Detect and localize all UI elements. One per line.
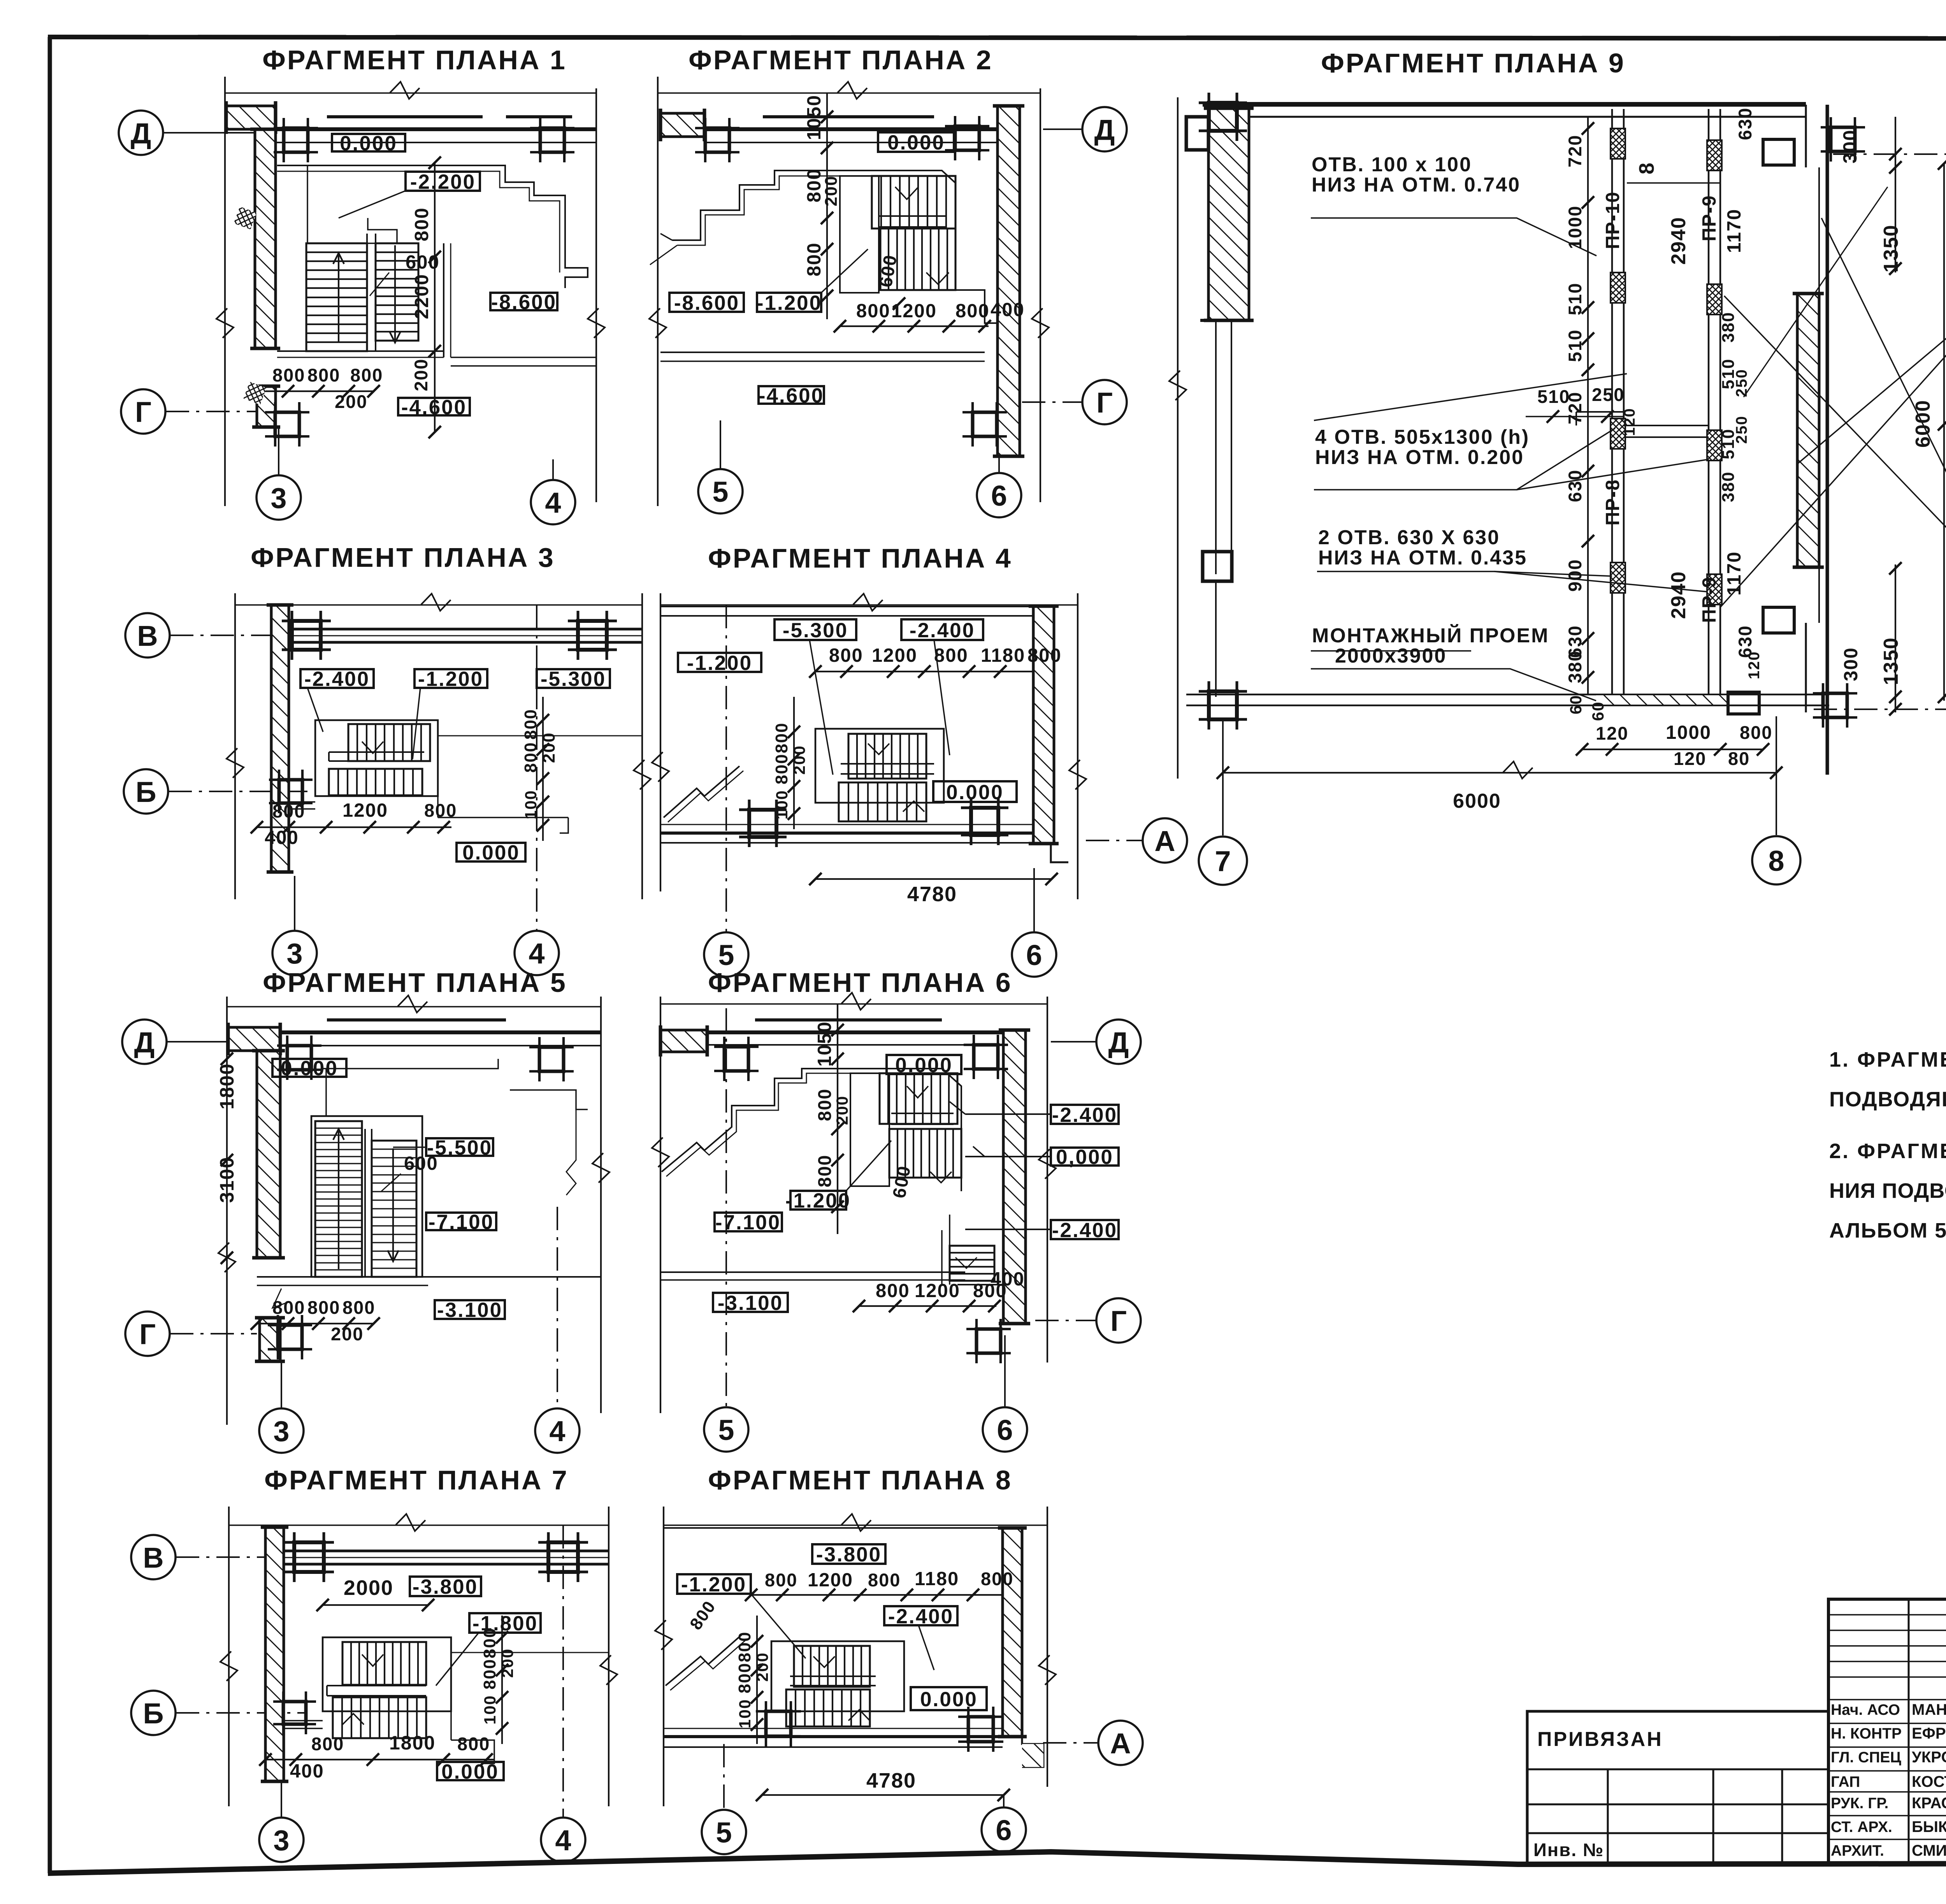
axis circle В [125,613,170,658]
wall section (hatched) [226,106,276,129]
wire [1200,319,1247,322]
wire [235,604,642,606]
axis circle 3 [272,931,317,975]
svg-text:Д: Д [134,1026,155,1058]
axis circle 4 [535,1408,580,1453]
column marker [1209,103,1237,131]
dimension line [837,1004,838,1234]
wall section (hatched) [265,1527,284,1781]
stair flight [329,769,422,795]
wall section (hatched) [1003,1528,1022,1737]
svg-text:0.000: 0.000 [887,131,945,154]
svg-text:-2.200: -2.200 [410,171,476,193]
svg-text:Г: Г [1096,387,1113,419]
svg-text:5: 5 [718,1414,734,1446]
svg-text:200: 200 [822,176,841,206]
wall section (hatched) [1797,294,1819,567]
svg-text:100: 100 [522,790,540,819]
svg-text:В: В [143,1542,163,1574]
wire [450,1637,452,1740]
stair flight [848,734,926,779]
svg-text:ПР-9: ПР-9 [1699,195,1720,241]
dimension line [657,77,659,506]
svg-text:-2.400: -2.400 [888,1605,954,1628]
axis circle 3 [259,1408,304,1453]
wire [1033,844,1068,862]
svg-text:-2.400: -2.400 [304,668,370,691]
wire [1744,187,1888,397]
axis circle Д [119,111,163,155]
wire [957,1284,1003,1285]
svg-text:0,000: 0,000 [1056,1146,1114,1169]
svg-text:-1.200: -1.200 [681,1573,746,1596]
svg-text:АЛЬБОМ 5 КМ-3: АЛЬБОМ 5 КМ-3 [1829,1219,1946,1242]
level mark -2.200 [406,172,480,191]
wire [284,1550,609,1552]
svg-text:-2.400: -2.400 [910,619,975,642]
svg-text:800: 800 [981,1568,1013,1589]
level mark -1.800 [469,1613,541,1633]
svg-text:2940: 2940 [1667,571,1690,619]
axis circle В [131,1535,176,1579]
break mark [655,1620,672,1650]
dimension line [815,878,1052,880]
svg-text:ГЛ. СПЕЦ: ГЛ. СПЕЦ [1831,1749,1901,1766]
axis circle 3 [256,475,301,520]
wire [841,773,934,775]
svg-text:ПР-10: ПР-10 [1602,191,1623,249]
svg-text:1170: 1170 [1724,551,1745,596]
break mark [216,308,234,338]
wire [660,606,1033,607]
wire [366,234,368,351]
svg-text:-3.800: -3.800 [816,1543,882,1566]
svg-text:ФРАГМЕНТ ПЛАНА 1: ФРАГМЕНТ ПЛАНА 1 [262,45,567,75]
wire [276,127,596,131]
stair flight [872,176,955,229]
wire [660,832,1033,835]
stair flight [333,1697,426,1738]
stair flight [950,1246,994,1281]
level mark -1.200 [790,1191,846,1210]
axis circle Г [125,1312,170,1356]
svg-text:-2.400: -2.400 [1052,1104,1117,1127]
svg-text:МОНТАЖНЫЙ ПРОЕМ: МОНТАЖНЫЙ ПРОЕМ [1312,624,1549,647]
wire [1527,1769,1828,1770]
wire [707,1030,1003,1034]
svg-text:120: 120 [1746,651,1763,679]
svg-text:ФРАГМЕНТ ПЛАНА 5: ФРАГМЕНТ ПЛАНА 5 [263,967,567,998]
wall section (hatched) [271,605,289,872]
wire [1022,1737,1043,1767]
wall section (hatched) [257,386,276,427]
svg-text:5: 5 [716,1816,732,1849]
svg-text:800: 800 [1740,722,1772,743]
svg-text:800: 800 [814,1155,835,1187]
svg-text:250: 250 [1592,384,1625,405]
stair flight [348,724,430,761]
level mark 0,000 [1051,1148,1119,1166]
stair flight [794,1646,870,1687]
wire [1186,694,1829,696]
svg-text:В: В [137,620,158,652]
stair flight [315,1121,362,1277]
svg-text:600: 600 [889,1164,915,1199]
svg-text:ГАП: ГАП [1831,1774,1860,1790]
svg-text:4780: 4780 [866,1769,916,1792]
svg-text:800: 800 [856,301,890,322]
dimension line [840,325,989,327]
svg-text:-5.300: -5.300 [783,619,848,642]
axis circle 5 [704,1407,748,1452]
axis circle 5 [698,469,743,513]
svg-text:2. ФРАГМЕНТЫ ПЛАНА 5÷ 8 ПР: 2. ФРАГМЕНТЫ ПЛАНА 5÷ 8 ПРИМЕНЯТЬ ПРИ ГЛ… [1829,1139,1946,1163]
svg-text:630: 630 [1565,469,1585,502]
svg-text:ПР-9: ПР-9 [1699,577,1720,623]
outline [840,176,879,293]
svg-text:8: 8 [1635,162,1658,174]
svg-text:800: 800 [876,1280,910,1301]
column marker [705,128,729,152]
level mark -2.400 [884,1606,957,1625]
dimension line [1223,772,1776,774]
svg-text:-1.200: -1.200 [418,668,483,691]
svg-text:2200: 2200 [411,274,432,319]
axis circle Г [121,389,165,434]
svg-text:800: 800 [868,1570,901,1590]
level mark -2.400 [1051,1220,1119,1239]
wire [658,92,1040,94]
dimension line [826,93,828,319]
wire [277,171,560,273]
svg-text:380: 380 [1565,650,1585,683]
svg-text:ФРАГМЕНТ ПЛАНА 8: ФРАГМЕНТ ПЛАНА 8 [708,1465,1012,1495]
wire [1314,374,1627,420]
svg-text:2000х3900: 2000х3900 [1335,645,1447,667]
stair flight [306,243,367,351]
wall section (hatched) [660,113,704,137]
wire [1311,650,1471,652]
wall section (hatched) [260,1318,280,1361]
wall section (hatched) [998,106,1020,456]
axis circle А [1143,818,1187,863]
level mark 0.000 [933,781,1017,802]
level mark 0.000 [437,1762,504,1780]
svg-text:800: 800 [521,709,540,740]
wire [660,352,985,353]
level mark -2.400 [300,669,374,688]
axis circle 5 [702,1810,746,1854]
svg-text:200: 200 [753,1652,771,1682]
wire [510,1090,588,1109]
wire [891,1113,954,1114]
svg-text:ПОДВОДЯЩЕГО КОЛЛЕКТОРА -7.0: ПОДВОДЯЩЕГО КОЛЛЕКТОРА -7.0 М. СМ. Т.П. … [1829,1088,1946,1111]
svg-text:4: 4 [555,1824,571,1857]
svg-text:800: 800 [272,801,305,821]
svg-text:БЫКОВ: БЫКОВ [1912,1818,1946,1835]
wire [813,1656,835,1667]
svg-text:Г: Г [1110,1305,1127,1337]
svg-text:800: 800 [342,1297,375,1318]
svg-text:-8.600: -8.600 [674,292,739,315]
wire [662,1069,961,1191]
svg-text:НИЗ НА ОТМ. 0.740: НИЗ НА ОТМ. 0.740 [1312,174,1521,196]
svg-text:8: 8 [1768,845,1784,877]
wire [289,801,315,803]
svg-text:Б: Б [143,1697,163,1730]
svg-text:6000: 6000 [1453,790,1501,812]
break mark [227,748,244,778]
svg-text:УКРОПОВА: УКРОПОВА [1912,1749,1946,1766]
wire [437,720,439,818]
svg-text:1180: 1180 [981,645,1025,666]
svg-text:-1.200: -1.200 [757,292,822,315]
svg-text:1170: 1170 [1724,209,1745,253]
svg-text:1050: 1050 [804,95,825,140]
svg-text:800: 800 [735,1663,754,1693]
level mark 0.000 [457,843,525,861]
wire [451,357,596,358]
dimension line [751,1594,1003,1596]
level mark -8.600 [490,293,557,310]
wire [280,1030,601,1034]
axis circle Б [131,1691,176,1735]
svg-text:120: 120 [1621,408,1638,436]
svg-text:-1.200: -1.200 [687,652,752,675]
svg-text:800: 800 [350,365,383,385]
wall section (hatched) [660,1030,707,1052]
level mark -1.200 [678,653,761,672]
wire [229,1524,609,1526]
svg-text:Н. КОНТР: Н. КОНТР [1831,1725,1902,1742]
dimension line [793,697,795,829]
svg-text:5: 5 [718,939,734,971]
svg-text:800: 800 [735,1631,754,1662]
svg-text:200: 200 [335,391,367,412]
axis circle Д [1082,107,1127,151]
axis circle Б [124,769,168,814]
svg-text:800: 800 [411,207,432,241]
axis circle 5 [704,932,748,977]
svg-text:2000: 2000 [344,1576,393,1600]
wall section (hatched) [1208,108,1249,320]
svg-text:1200: 1200 [872,645,917,666]
wire [666,1635,741,1686]
svg-text:-2.400: -2.400 [1052,1219,1117,1242]
dimension line [815,671,1033,672]
svg-text:НИЗ НА ОТМ. 0.200: НИЗ НА ОТМ. 0.200 [1315,446,1524,469]
svg-text:3: 3 [286,937,302,970]
svg-text:3: 3 [270,482,286,514]
svg-text:ОТВ. 100 х 100: ОТВ. 100 х 100 [1312,153,1472,176]
outline [771,1641,904,1711]
svg-text:Д: Д [1094,114,1115,146]
svg-text:300: 300 [1840,129,1861,164]
outline [311,1116,422,1277]
wire [1203,102,1806,107]
svg-text:4: 4 [545,487,561,519]
svg-text:Б: Б [135,776,156,808]
axis circle 6 [982,1807,1026,1852]
svg-text:510: 510 [1537,386,1570,407]
svg-text:100: 100 [773,790,791,819]
svg-text:800: 800 [272,1297,305,1318]
axis circle 4 [515,931,559,975]
level mark 0.000 [878,132,954,152]
stair flight [342,1642,426,1685]
level mark -3.100 [713,1293,788,1312]
svg-text:ФРАГМЕНТ ПЛАНА 9: ФРАГМЕНТ ПЛАНА 9 [1321,48,1625,78]
level mark 0.000 [272,1059,346,1077]
column marker [749,810,776,837]
svg-text:ФРАГМЕНТ ПЛАНА 6: ФРАГМЕНТ ПЛАНА 6 [708,967,1012,998]
svg-text:200: 200 [539,732,559,763]
break mark [652,1137,669,1167]
wire [1215,320,1217,574]
wire [362,742,383,753]
wire [272,1289,288,1308]
svg-text:КОСТИН: КОСТИН [1912,1773,1946,1790]
wall section (hatched) [228,1027,280,1051]
dimension line [1587,117,1589,694]
level mark -4.600 [759,386,824,404]
dimension line [501,1616,503,1744]
axis circle Д [1096,1020,1141,1064]
svg-text:4 ОТВ. 505х1300 (h): 4 ОТВ. 505х1300 (h) [1315,426,1530,448]
wire [1708,109,1710,697]
svg-text:100: 100 [481,1695,499,1725]
dimension line [663,1507,664,1806]
svg-text:400: 400 [991,299,1025,320]
svg-text:МАНКАУСКАС: МАНКАУСКАС [1912,1701,1946,1718]
svg-text:-3.800: -3.800 [413,1575,478,1598]
wire [1805,105,1807,167]
dimension line [1895,117,1896,273]
svg-text:800: 800 [311,1733,344,1754]
dimension line [265,1759,494,1760]
axis circle А [1098,1721,1143,1765]
wire [289,628,642,631]
svg-text:РУК. ГР.: РУК. ГР. [1831,1795,1888,1812]
svg-text:200: 200 [498,1648,516,1678]
break mark [652,752,669,782]
svg-text:ФРАГМЕНТ ПЛАНА 4: ФРАГМЕНТ ПЛАНА 4 [708,543,1012,573]
svg-text:А: А [1154,825,1175,857]
svg-text:ФРАГМЕНТ ПЛАНА 3: ФРАГМЕНТ ПЛАНА 3 [251,542,555,573]
svg-text:800: 800 [480,1659,499,1690]
svg-text:400: 400 [991,1269,1025,1290]
axis circle 4 [541,1818,585,1862]
column marker [724,1047,748,1071]
dimension line [257,826,451,828]
svg-text:380: 380 [1719,312,1738,343]
wall section (hatched) [1003,1030,1026,1324]
svg-text:Г: Г [135,396,151,428]
svg-text:1. ФРАГМЕНТЫ ПЛАНА 1÷4 ПРИМ: 1. ФРАГМЕНТЫ ПЛАНА 1÷4 ПРИМЕНЯТЬ ПРИ ГЛУ… [1829,1048,1946,1071]
svg-text:800: 800 [272,365,305,385]
wire [443,243,444,357]
svg-text:СТ. АРХ.: СТ. АРХ. [1831,1819,1892,1835]
wire [1624,425,1709,426]
wire [664,1735,1003,1738]
wire [660,1271,965,1273]
svg-text:800: 800 [686,1597,720,1633]
level mark -3.800 [812,1544,885,1564]
svg-text:1800: 1800 [389,1732,436,1754]
wire [955,290,998,323]
svg-text:3: 3 [273,1824,289,1857]
svg-text:200: 200 [331,1324,364,1344]
svg-text:800: 800 [772,754,791,784]
stair flight [880,1073,957,1124]
wire [257,1276,601,1278]
wire [1311,218,1596,256]
dimension line [859,1305,996,1307]
column marker [292,621,321,650]
svg-text:2 ОТВ. 630 Х 630: 2 ОТВ. 630 Х 630 [1318,526,1500,549]
dimension line [323,1604,428,1606]
svg-text:200: 200 [411,359,431,391]
svg-text:НИЗ НА ОТМ. 0.435: НИЗ НА ОТМ. 0.435 [1318,547,1527,569]
axis circle 6 [983,1407,1027,1452]
svg-text:100: 100 [736,1699,754,1728]
svg-text:800: 800 [829,645,863,666]
dimension line [542,697,544,841]
outline [323,1637,451,1711]
svg-text:630: 630 [1735,107,1755,140]
svg-text:5: 5 [712,476,728,508]
wire [895,187,919,199]
wire [1576,411,1624,413]
svg-text:600: 600 [406,252,440,273]
svg-text:800: 800 [424,800,457,821]
svg-text:6: 6 [996,1814,1012,1846]
svg-text:800: 800 [934,645,968,666]
level mark 0.000 [911,1687,987,1710]
outline [1728,692,1759,714]
axis circle Г [1096,1298,1141,1343]
svg-text:0.000: 0.000 [441,1760,499,1783]
svg-text:250: 250 [1733,415,1750,444]
stair direction arrow [338,1129,339,1269]
wire [664,766,739,818]
dimension line [434,163,436,432]
level mark -1.200 [757,293,821,312]
svg-text:60: 60 [1589,701,1607,721]
level mark 0.000 [332,134,405,151]
dimension line [1943,164,1945,701]
svg-text:800: 800 [772,723,791,753]
svg-text:ФРАГМЕНТ ПЛАНА 2: ФРАГМЕНТ ПЛАНА 2 [688,45,993,75]
dimension line [1177,97,1178,779]
dimension line [228,1507,230,1806]
wire [1317,571,1612,576]
wire [225,92,596,94]
svg-text:1200: 1200 [891,301,937,322]
svg-text:4780: 4780 [907,883,957,906]
svg-text:3: 3 [273,1415,289,1447]
svg-text:-3.100: -3.100 [437,1299,502,1322]
level mark -8.600 [669,293,744,312]
wire [955,176,956,290]
svg-text:-8.600: -8.600 [491,291,557,314]
svg-text:СМИРНОВА: СМИРНОВА [1912,1842,1946,1859]
break mark [218,1243,235,1272]
wire [660,1003,1047,1005]
outline [850,1073,889,1186]
level mark -3.100 [435,1300,505,1319]
column marker [287,1046,311,1070]
